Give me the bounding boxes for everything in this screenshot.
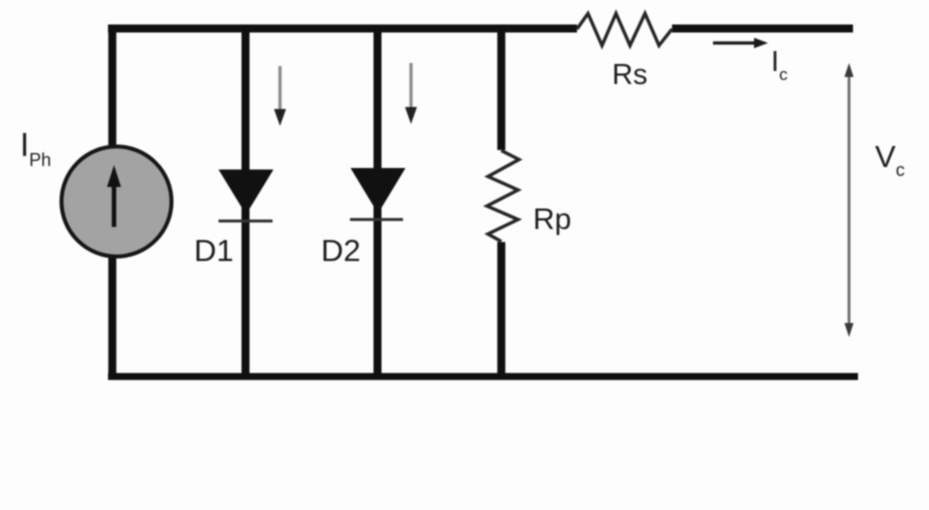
wire: top rail left section (node A to Rs) (108, 25, 577, 33)
svg-text:Vc: Vc (875, 139, 905, 180)
output current arrow Ic (713, 38, 768, 48)
svg-text:Rp: Rp (533, 203, 571, 236)
current arrow beside D2 (405, 63, 417, 124)
current source internal arrow (upward) (107, 165, 121, 227)
svg-text:Rs: Rs (612, 59, 647, 91)
wire: bottom rail (108, 373, 858, 380)
svg-text:D2: D2 (321, 233, 361, 268)
diode D2 (triangle + cathode bar) (350, 168, 406, 220)
resistor Rs (horizontal zigzag) (577, 14, 672, 46)
wire: left branch vertical (through current source) (108, 25, 116, 378)
resistor Rp (vertical zigzag) (487, 151, 519, 242)
current arrow beside D1 (274, 66, 286, 126)
wire: Rp branch vertical (upper and lower stubs) (497, 26, 505, 378)
wire: diode D2 branch vertical (374, 25, 382, 378)
current source IPh (circle) (62, 147, 172, 257)
wire: diode D1 branch vertical (242, 25, 250, 378)
svg-text:D1: D1 (194, 233, 234, 268)
diode D1 (triangle + cathode bar) (219, 170, 274, 222)
svg-text:Ic: Ic (771, 46, 788, 84)
voltage arrow Vc (double headed vertical) (844, 63, 853, 337)
svg-text:IPh: IPh (20, 126, 51, 170)
wire: top rail right section (Rs to output) (672, 25, 853, 33)
